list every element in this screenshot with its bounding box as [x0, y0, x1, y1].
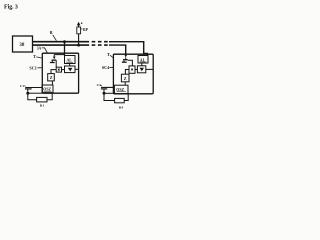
svg-text:RP: RP — [83, 28, 89, 32]
wire x-box to z-box — [51, 70, 56, 74]
svg-text:T: T — [33, 54, 36, 59]
wire: jog to transistor collector — [54, 54, 64, 56]
bottom plate (right) — [101, 88, 107, 90]
wire OSZ to capacitor / top plate — [25, 87, 42, 89]
wire z to OSZ — [51, 81, 53, 85]
svg-text:OSZ: OSZ — [116, 88, 124, 92]
svg-text:38: 38 — [19, 43, 25, 48]
block 38 (central unit) — [13, 36, 33, 52]
wire transistor to x-box — [55, 60, 57, 67]
multiplier x-box (right) — [129, 66, 135, 73]
box W (left) — [65, 66, 76, 73]
svg-text:Z: Z — [124, 76, 127, 81]
box Z (right divider) — [121, 74, 129, 82]
resistor R4 loop — [104, 93, 115, 100]
bus line 2 bottom (solid left) — [33, 44, 86, 46]
node dot C4/R4 — [103, 92, 106, 95]
wire W to station edge — [75, 68, 79, 70]
figure title Fig.3 — [4, 4, 18, 10]
bus line 2 bottom (solid right + corner down into right station) — [109, 45, 126, 54]
svg-text:SC4: SC4 — [102, 65, 110, 70]
supply arrow above RP — [77, 22, 81, 26]
svg-text:3A: 3A — [37, 46, 42, 50]
svg-text:B: B — [50, 30, 53, 35]
wire OSZ to capacitor / top plate (right) — [101, 86, 114, 88]
label RP — [81, 28, 83, 30]
svg-text:Fig. 3: Fig. 3 — [4, 4, 18, 10]
bus line B top (solid right + corner down to right station) — [109, 42, 147, 56]
wire x-box to W (right) — [135, 69, 137, 71]
node: junction dot left drop on top bus line — [63, 40, 66, 43]
node dot C1/R1 — [26, 92, 29, 95]
wire AL to W — [69, 64, 71, 67]
box AL (left) — [65, 56, 76, 64]
resistor RP vertical branch — [78, 34, 80, 45]
wire W to station edge (right) — [146, 68, 153, 70]
svg-text:R1: R1 — [40, 103, 45, 107]
box AL (right) — [138, 56, 148, 64]
wire AL to W (right) — [141, 63, 143, 66]
svg-text:R4: R4 — [119, 106, 124, 110]
svg-text:C1: C1 — [20, 84, 24, 88]
left station box SC1 — [42, 53, 78, 93]
wire node to OSZ bottom (right) — [104, 92, 116, 94]
svg-text:AL: AL — [67, 59, 73, 63]
svg-text:C4: C4 — [97, 83, 101, 87]
wire: drop from bus to left station — [64, 42, 66, 56]
wire x-box to W — [62, 69, 65, 71]
bottom plate — [25, 88, 32, 90]
right station box SC4 — [113, 54, 153, 94]
bus line B top (solid left) — [33, 41, 86, 43]
box OSZ (right oscillator) — [114, 85, 128, 93]
wire z to OSZ (right) — [124, 82, 126, 85]
wire transistor base to x-box (right) — [128, 60, 133, 66]
transistor T (right) — [124, 55, 127, 58]
svg-text:T: T — [107, 52, 110, 57]
transistor T (left) — [53, 55, 55, 57]
svg-text:SC1: SC1 — [29, 65, 36, 70]
box W (right) — [137, 66, 145, 73]
bus line B top (dashed middle) — [86, 41, 110, 43]
wire x-box to z-box (right) — [125, 70, 129, 75]
wire node to station bottom — [28, 92, 43, 94]
svg-text:OSZ: OSZ — [43, 88, 51, 92]
plus mark — [81, 22, 83, 24]
svg-text:Z: Z — [50, 75, 53, 80]
resistor R1 loop — [28, 93, 37, 100]
multiplier x-box (left) — [56, 67, 61, 72]
box OSZ (left oscillator) — [42, 85, 53, 93]
node: junction dot RP on bottom bus line — [77, 44, 80, 47]
bus line 2 bottom (dashed middle) — [86, 44, 110, 46]
box Z (left divider) — [48, 74, 55, 81]
